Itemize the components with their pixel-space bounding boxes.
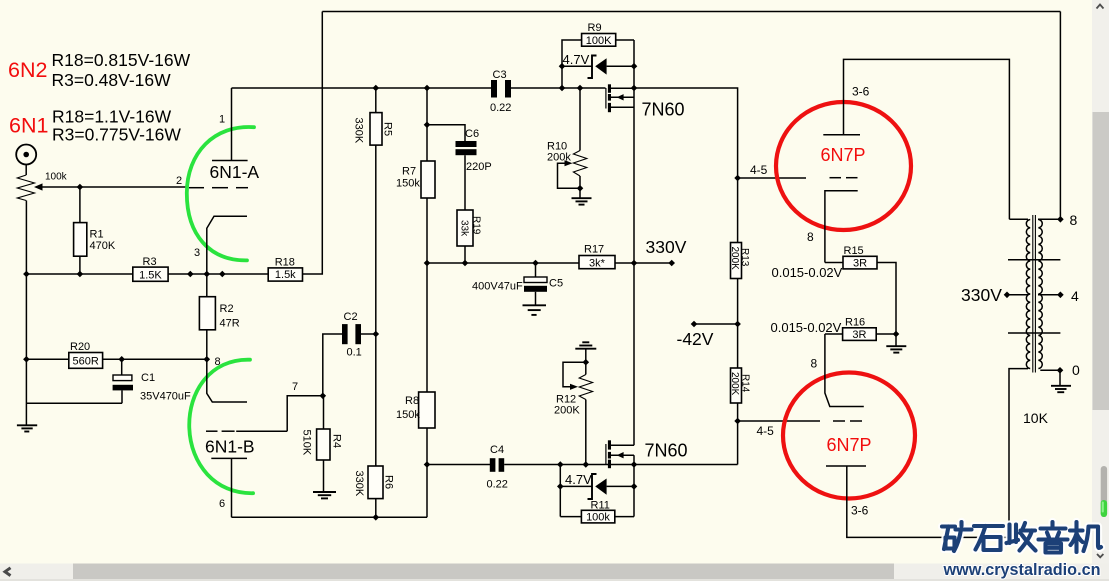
C4 rail wire right <box>504 464 737 466</box>
svg-text:0.015-0.02V: 0.015-0.02V <box>771 320 842 335</box>
scrollbar track bottom <box>0 564 1109 580</box>
wire R18 right to feedback riser <box>303 12 323 275</box>
capacitor C2 <box>323 311 376 396</box>
svg-text:3k*: 3k* <box>589 257 606 269</box>
6N7P lower plate <box>826 465 866 467</box>
svg-text:220P: 220P <box>466 161 492 173</box>
resistor R5 <box>353 88 394 145</box>
node -42V / R13-R14 spine junction <box>734 321 741 328</box>
svg-text:R3=0.48V-16W: R3=0.48V-16W <box>52 70 172 90</box>
svg-text:33k: 33k <box>459 220 470 237</box>
wire Q1 drain to grid 4-5 riser <box>634 88 738 178</box>
svg-text:100K: 100K <box>586 35 612 47</box>
input jack J1 <box>16 145 36 165</box>
wire C6 branch <box>427 125 465 141</box>
svg-text:R17: R17 <box>584 244 604 256</box>
svg-text:3-6: 3-6 <box>852 85 870 99</box>
svg-text:R3: R3 <box>143 256 157 268</box>
svg-text:R4: R4 <box>331 434 343 448</box>
svg-text:C4: C4 <box>490 444 504 456</box>
scrollbar thumb right <box>1093 112 1109 410</box>
svg-text:R1: R1 <box>90 229 104 241</box>
svg-text:330K: 330K <box>353 471 365 497</box>
transformer T1 primary top lead <box>1009 218 1028 220</box>
triode 6N1-A envelope (green arc) <box>187 127 254 260</box>
capacitor C4 <box>487 444 508 491</box>
node cathode ground junction <box>893 331 900 338</box>
node wiper/R1 junction <box>77 184 84 191</box>
6N7P upper cathode <box>825 191 858 263</box>
wire node 4-5 lower to grid <box>738 420 820 422</box>
resistor R14 <box>729 368 751 465</box>
svg-text:R7: R7 <box>402 166 416 178</box>
svg-text:200K: 200K <box>554 405 580 417</box>
svg-text:330V: 330V <box>961 285 1002 305</box>
svg-text:1.5k: 1.5k <box>275 269 296 281</box>
node left bus / bottom wire <box>23 271 30 278</box>
svg-text:6N7P: 6N7P <box>821 145 866 165</box>
node D2 left <box>557 483 564 490</box>
tube V3 6N7P lower envelope <box>783 373 915 499</box>
svg-text:0.015-0.02V: 0.015-0.02V <box>772 265 843 280</box>
node B+ rail left <box>424 260 431 267</box>
node R10 wiper <box>577 185 584 192</box>
node R12 bottom on rail <box>583 461 590 468</box>
wire pot bottom to ground <box>25 201 27 426</box>
node 3a <box>187 271 194 278</box>
secondary tap 8 <box>1038 12 1064 223</box>
triode 6N1-B envelope (green arc) <box>189 360 253 494</box>
wire R7 to rail <box>426 198 428 392</box>
svg-text:35V470uF: 35V470uF <box>140 391 191 403</box>
6N7P upper plate <box>823 134 860 136</box>
wire R19 to B+ rail <box>464 246 466 263</box>
node rail/D2 riser <box>557 461 564 468</box>
svg-text:560R: 560R <box>73 356 99 368</box>
node 4-5 upper <box>734 175 741 182</box>
svg-text:C2: C2 <box>344 311 358 323</box>
svg-text:C6: C6 <box>465 128 479 140</box>
svg-text:0.1: 0.1 <box>347 347 362 359</box>
svg-text:47R: 47R <box>220 318 240 330</box>
node R6 bottom <box>373 514 380 521</box>
6N1-B plate <box>211 458 247 517</box>
svg-text:R18: R18 <box>275 257 295 269</box>
resistor R4 <box>301 396 343 492</box>
wire 6N1-A plate row (left of C3) <box>232 87 492 89</box>
scrollbar left arrow <box>5 568 11 576</box>
MOSFET Q1 7N60 <box>605 84 634 112</box>
svg-text:3R: 3R <box>853 258 867 270</box>
resistor R7 <box>396 161 435 198</box>
svg-text:4.7V: 4.7V <box>565 472 592 487</box>
6N7P lower cathode <box>825 334 864 407</box>
svg-text:R5: R5 <box>382 122 394 136</box>
transformer section line 1 <box>1008 259 1060 261</box>
svg-text:200k: 200k <box>547 152 571 164</box>
wire upper plate to transformer <box>844 59 1010 219</box>
svg-text:7: 7 <box>292 381 298 393</box>
ground G2 (R4) <box>313 492 336 498</box>
capacitor C1 <box>113 359 191 403</box>
node C2/R5R6 spine <box>373 331 380 338</box>
wire C1 bottom to left bus <box>26 402 122 404</box>
resistor R15 <box>825 245 896 334</box>
scroll widget capsule <box>1101 466 1107 517</box>
svg-text:6N1-B: 6N1-B <box>205 437 255 457</box>
svg-text:200K: 200K <box>729 247 740 271</box>
node left bus / R20 wire <box>23 356 30 363</box>
ground G7 (secondary 0) <box>1051 370 1071 392</box>
svg-text:0.22: 0.22 <box>490 102 511 114</box>
svg-text:200K: 200K <box>729 372 740 396</box>
svg-text:10K: 10K <box>1023 410 1049 426</box>
node 3c <box>219 271 226 278</box>
C4 rail wire left <box>427 464 490 466</box>
node 330V test point <box>668 260 675 267</box>
svg-text:100k: 100k <box>586 512 610 524</box>
resistor R13 <box>729 178 750 368</box>
svg-text:1.5K: 1.5K <box>139 270 162 282</box>
svg-text:4: 4 <box>1071 288 1079 304</box>
transformer T1 secondary winding <box>1038 220 1042 369</box>
scrollbar up arrow <box>1097 5 1104 9</box>
capacitor C5 <box>472 263 563 305</box>
zener diode D2 4.7V <box>560 472 634 499</box>
ground G4 (R10) <box>572 188 592 204</box>
capacitor C3 <box>490 69 511 114</box>
6N1-B cathode <box>207 359 247 402</box>
svg-text:3: 3 <box>194 247 200 259</box>
svg-text:2: 2 <box>176 175 182 187</box>
svg-text:R18=0.815V-16W: R18=0.815V-16W <box>52 50 191 70</box>
node Q2 source on rail <box>631 461 638 468</box>
svg-text:R20: R20 <box>70 341 90 353</box>
svg-text:150k: 150k <box>396 409 420 421</box>
svg-text:-42V: -42V <box>677 329 714 349</box>
zener diode D1 4.7V <box>562 52 634 78</box>
svg-text:6N7P: 6N7P <box>827 435 872 455</box>
secondary tap 0 <box>1040 367 1063 374</box>
node C1 top <box>118 356 125 363</box>
svg-text:R14: R14 <box>740 374 751 393</box>
ground G3 (C5) <box>523 305 547 315</box>
svg-text:1: 1 <box>219 114 225 126</box>
wire Q2 body/source to rail <box>633 455 635 516</box>
svg-text:8: 8 <box>1070 212 1078 228</box>
6N7P upper grid (dashed) <box>830 177 858 179</box>
svg-text:4-5: 4-5 <box>757 424 775 438</box>
6N1-A plate <box>212 88 248 161</box>
node 8 (6N1-B cathode) <box>204 356 211 363</box>
svg-text:6N2: 6N2 <box>8 58 47 82</box>
wire C3 to gate Q1 <box>511 87 606 89</box>
scrollbar track right <box>1092 0 1109 581</box>
svg-text:R19: R19 <box>471 216 482 235</box>
pot wiper arrow <box>34 183 187 190</box>
MOSFET Q2 7N60 <box>605 440 634 468</box>
resistor R1 <box>74 187 116 274</box>
resistor R16 <box>825 317 896 342</box>
ground G1 <box>17 425 37 431</box>
svg-text:6N1-A: 6N1-A <box>210 162 260 182</box>
watermark logo (vector CJK) <box>942 522 1101 553</box>
wire R7/R8 spine upper <box>426 88 428 161</box>
svg-text:R3=0.775V-16W: R3=0.775V-16W <box>52 125 181 145</box>
node zener D1 left <box>559 85 566 92</box>
svg-text:R6: R6 <box>383 475 395 489</box>
node 4-5 lower <box>734 418 741 425</box>
6N1-A cathode <box>207 216 247 274</box>
svg-text:C1: C1 <box>141 372 155 384</box>
node D1 cathode <box>559 63 566 70</box>
resistor R2 <box>199 274 239 359</box>
tube V2 6N7P upper envelope <box>776 102 911 230</box>
node 7 junction <box>320 393 327 400</box>
resistor R9 <box>562 22 634 88</box>
svg-text:R15: R15 <box>844 245 864 257</box>
scrollbar thumb bottom <box>73 564 894 580</box>
svg-text:4.7V: 4.7V <box>563 52 590 67</box>
node R1 bottom <box>77 271 84 278</box>
potentiometer VOL 100k element <box>17 175 34 201</box>
svg-text:7N60: 7N60 <box>642 100 685 120</box>
transformer section line 2 <box>1008 332 1060 334</box>
svg-text:R9: R9 <box>588 22 602 34</box>
wire C6 to R19 <box>464 155 466 210</box>
svg-text:470K: 470K <box>90 240 116 252</box>
resistor R6 <box>353 466 395 517</box>
wire bottom node-3 rail <box>26 273 132 275</box>
svg-text:3-6: 3-6 <box>851 504 869 518</box>
node R5 top <box>373 85 380 92</box>
svg-text:4-5: 4-5 <box>750 163 768 177</box>
node 3b cathode junction <box>204 271 211 278</box>
node -42V test point <box>691 321 741 328</box>
transformer 330V center tap <box>1004 292 1029 299</box>
scrollbar bottom edge <box>0 579 1109 581</box>
wire R8 to C4 rail and pin6 rail <box>426 428 428 517</box>
svg-text:0.22: 0.22 <box>487 479 508 491</box>
node D2 anode <box>631 483 638 490</box>
svg-text:3R: 3R <box>852 329 866 341</box>
wire lower plate to transformer <box>847 369 1028 538</box>
svg-text:C5: C5 <box>549 278 563 290</box>
node R10 top <box>577 85 584 92</box>
wire jack to volume pot <box>25 165 27 176</box>
svg-text:8: 8 <box>807 230 814 244</box>
resistor R11 <box>560 500 634 524</box>
svg-text:C3: C3 <box>493 69 507 81</box>
svg-text:R13: R13 <box>739 248 750 267</box>
ground G6 (cathodes) <box>886 334 906 353</box>
6N1-A grid (dashed) <box>189 187 248 189</box>
top feedback rail <box>322 11 1060 13</box>
svg-text:R18=1.1V-16W: R18=1.1V-16W <box>52 107 172 127</box>
svg-text:8: 8 <box>811 357 818 371</box>
node R12 wiper <box>583 359 590 366</box>
svg-text:150k: 150k <box>396 178 420 190</box>
secondary tap 4 <box>1038 292 1064 299</box>
svg-text:6N1: 6N1 <box>9 114 48 138</box>
wire zener/R11 left riser <box>559 465 561 517</box>
node Q1 drain <box>631 85 638 92</box>
svg-text:510K: 510K <box>301 430 313 456</box>
svg-text:100k: 100k <box>45 172 68 183</box>
svg-text:R2: R2 <box>220 303 234 315</box>
node R7 branch top <box>424 85 431 92</box>
wire R3 to R18 <box>168 273 268 275</box>
svg-text:6: 6 <box>219 498 225 510</box>
wire grid-B to node 7 <box>287 396 323 431</box>
svg-text:330V: 330V <box>646 237 687 257</box>
svg-text:400V47uF: 400V47uF <box>472 281 523 293</box>
node D1 anode <box>631 63 638 70</box>
resistor R3 <box>133 256 168 282</box>
transformer T1 primary winding <box>1026 220 1030 369</box>
wire pin6 rail <box>232 516 428 518</box>
B+ rail wire <box>427 262 579 264</box>
resistor R17 <box>579 244 672 270</box>
resistor R8 <box>396 392 435 428</box>
6N1-B grid (dashed) <box>206 430 287 432</box>
node C5 top <box>532 260 539 267</box>
wire R5-R6 spine <box>375 145 377 466</box>
svg-text:www.crystalradio.cn: www.crystalradio.cn <box>943 560 1101 579</box>
scrollbar down arrow <box>1097 554 1103 557</box>
transformer T1 core <box>1033 215 1036 373</box>
svg-text:R8: R8 <box>405 395 419 407</box>
node C6 branch <box>424 122 431 129</box>
node B+ / MOSFET spine junction <box>631 260 638 267</box>
potentiometer R12 <box>554 349 593 465</box>
wire node 4-5 to grid <box>738 177 806 179</box>
resistor R18 <box>268 257 302 282</box>
node C4 rail left <box>424 461 431 468</box>
resistor R20 <box>26 341 206 368</box>
svg-text:R11: R11 <box>591 500 610 512</box>
node R19 bottom <box>462 260 469 267</box>
svg-text:7N60: 7N60 <box>645 441 688 461</box>
ground G5 (R12, inverted) <box>575 342 596 348</box>
svg-text:R16: R16 <box>845 317 865 329</box>
6N7P lower grid (dashed) <box>833 420 862 422</box>
potentiometer R10 <box>547 88 587 188</box>
svg-text:330K: 330K <box>353 118 365 144</box>
wire Q1 source spine (to Q2 drain) <box>633 40 635 445</box>
svg-text:0: 0 <box>1072 362 1080 378</box>
resistor R19 <box>457 210 482 246</box>
capacitor C6 <box>456 128 492 173</box>
